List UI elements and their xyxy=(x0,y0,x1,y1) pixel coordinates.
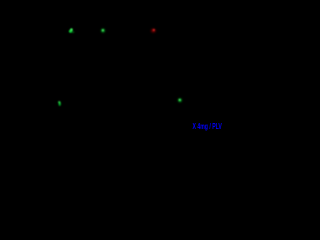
red fluorescent cell C (top-right) xyxy=(151,29,156,33)
green fluorescent cell A (top-left, irregular boomerang shape) xyxy=(69,28,73,32)
green fluorescent cell E (bottom-right round dot) xyxy=(178,99,181,102)
green fluorescent cell B (top-middle round dot) xyxy=(101,29,104,32)
svg-text:X 4mg / PLV: X 4mg / PLV xyxy=(193,122,223,131)
green cell A bright core xyxy=(69,29,74,33)
green fluorescent cell D (bottom-left, vertical comma shape) xyxy=(58,101,61,106)
